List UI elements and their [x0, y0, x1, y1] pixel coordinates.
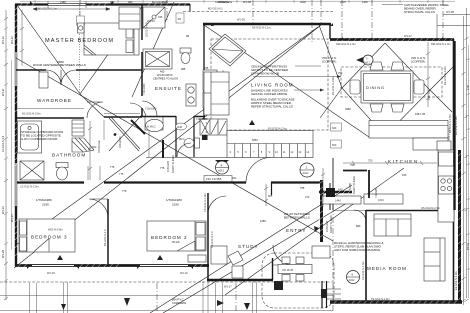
deck table	[278, 257, 312, 281]
kitchen upper cabinet	[437, 141, 451, 150]
bath toilet	[56, 163, 68, 181]
cabinet living above strip	[200, 119, 227, 135]
top wall tick arrows	[30, 1, 443, 40]
wall entry east	[329, 183, 331, 210]
ceiling line dining corner b	[430, 90, 452, 112]
wall hatch ticks right lower	[458, 154, 461, 301]
bathroom door nib diagonal	[131, 120, 145, 134]
svg-text:1140: 1140	[177, 125, 183, 129]
ensuite toilet	[180, 48, 191, 64]
door media	[354, 210, 366, 222]
svg-text:E1-GS1-N-1.3m: E1-GS1-N-1.3m	[454, 271, 458, 290]
svg-text:BY-04: BY-04	[466, 242, 470, 250]
bath dim lines	[88, 166, 100, 180]
svg-text:05-GS: 05-GS	[172, 240, 180, 244]
svg-text:13B.T.05: 13B.T.05	[427, 89, 431, 100]
wall kitchen/entry west	[332, 158, 334, 210]
dining chairs bottom	[370, 104, 404, 112]
drawers 3-DRW wardrobe	[39, 72, 48, 88]
svg-text:4060: 4060	[345, 107, 351, 111]
svg-text:5880: 5880	[252, 138, 258, 142]
grid line dashdot x253	[252, 0, 254, 24]
svg-text:W.C: W.C	[179, 137, 185, 141]
svg-text:F-IB: F-IB	[466, 85, 470, 90]
dining table	[361, 71, 413, 103]
wall exterior right	[453, 39, 455, 302]
wall wc right	[193, 116, 195, 157]
study west wall extension to deck	[203, 281, 208, 313]
north arrow deck left	[61, 304, 66, 310]
svg-text:1990: 1990	[362, 0, 368, 4]
svg-text:N2-GS2-N-2.0m: N2-GS2-N-2.0m	[268, 127, 287, 131]
svg-text:DAIRY SLIDER: DAIRY SLIDER	[352, 176, 356, 194]
grid line dashdot x443	[442, 0, 444, 39]
small dims scattered	[110, 34, 426, 244]
hall south line	[146, 157, 227, 159]
entry porch pier	[321, 289, 327, 298]
svg-text:E2-GS1-N-1.0m: E2-GS1-N-1.0m	[443, 66, 447, 85]
svg-text:ENTRY: ENTRY	[286, 228, 307, 233]
svg-text:760: 760	[338, 71, 343, 75]
svg-text:CEILING COFFER ABOVE: CEILING COFFER ABOVE	[251, 92, 287, 96]
svg-text:465: 465	[160, 70, 165, 74]
wall living room top W1-08	[203, 23, 331, 26]
svg-text:FFL: FFL	[232, 176, 237, 180]
svg-text:W1-11: W1-11	[1, 88, 5, 96]
svg-text:DOOR CENTERED BETWEEN WALLS: DOOR CENTERED BETWEEN WALLS	[33, 63, 86, 67]
wall exterior left window W1-12	[15, 52, 17, 86]
dining chair left	[350, 80, 360, 94]
svg-text:W1-1B: W1-1B	[1, 250, 5, 258]
leader line cantilever note	[382, 4, 403, 6]
svg-text:BETWEEN WALLS: BETWEEN WALLS	[284, 216, 310, 220]
svg-text:CENTRES TO ALIGN: CENTRES TO ALIGN	[153, 77, 178, 81]
note bed2 window dim	[166, 198, 182, 207]
bath skylight	[20, 161, 44, 180]
entry porch wall verticals	[322, 281, 327, 308]
marker 1/A012	[300, 163, 314, 177]
ceiling line to diamond from wall	[319, 25, 342, 88]
study desk	[211, 246, 227, 264]
svg-text:41-GS1-N-1.6: 41-GS1-N-1.6	[1, 135, 5, 152]
svg-text:715: 715	[204, 66, 209, 70]
svg-text:(COFFER): (COFFER)	[322, 60, 336, 64]
svg-text:STRUCTURAL CALCS: STRUCTURAL CALCS	[404, 10, 435, 14]
svg-text:OD 18.36: OD 18.36	[282, 268, 294, 272]
bath tub	[18, 121, 42, 153]
storage angled door hatched	[72, 138, 94, 152]
svg-text:150: 150	[402, 173, 407, 177]
wall hall east segment	[271, 182, 273, 195]
ensuite dim column	[221, 70, 225, 110]
svg-text:710x1080: 710x1080	[142, 83, 146, 95]
svg-text:775: 775	[122, 189, 127, 193]
arrow marker bed3	[57, 255, 63, 260]
svg-text:DAIRY SLIDER: DAIRY SLIDER	[329, 215, 333, 233]
svg-text:A012: A012	[303, 171, 310, 175]
ceiling coffer living dashed	[211, 39, 328, 130]
svg-text:H.W.C: H.W.C	[147, 125, 156, 129]
ceiling diamond dining	[342, 43, 430, 136]
kitchen bench 1010	[364, 194, 403, 204]
entry porch steps	[327, 289, 341, 299]
deck post pair mid right	[216, 283, 223, 313]
study cabinet	[232, 266, 243, 278]
svg-text:REFER STRUCTURAL CALCS: REFER STRUCTURAL CALCS	[251, 105, 293, 109]
ceiling line long NE parallel b	[16, 27, 318, 245]
ceiling line study long b	[163, 200, 352, 313]
wall hatch ticks bottom bedrooms	[18, 264, 203, 267]
kitchen fridge	[439, 152, 454, 166]
hall dim chain vertical	[88, 121, 92, 180]
svg-text:LIVING ROOM: LIVING ROOM	[251, 83, 294, 88]
svg-text:750: 750	[368, 159, 373, 163]
svg-text:G5-GS2-N-2.3m: G5-GS2-N-2.3m	[421, 206, 440, 210]
ceiling line wardrobe steep	[132, 2, 174, 97]
corridor second line right part	[104, 113, 140, 115]
media couch vertical	[424, 238, 445, 281]
arrow marker bed2	[157, 255, 163, 260]
svg-text:1250: 1250	[260, 219, 266, 223]
dim line left	[4, 10, 8, 300]
deck post pair far left	[30, 283, 37, 313]
entry wall horizontal hatch ticks	[322, 190, 351, 194]
svg-text:(COFFER): (COFFER)	[411, 60, 425, 64]
deck edge dashed	[0, 281, 333, 283]
svg-text:755: 755	[300, 186, 305, 190]
wall entry south pier	[274, 281, 283, 290]
svg-text:W1-16: W1-16	[180, 271, 188, 275]
top right corner lines	[437, 14, 470, 40]
wardrobe unit master	[119, 7, 140, 29]
wall exterior right thick lower	[458, 150, 461, 302]
media couch horizontal	[374, 214, 411, 236]
deck dashdot x157	[156, 283, 158, 313]
svg-text:W1-15: W1-15	[47, 271, 55, 275]
svg-text:1175: 1175	[162, 0, 168, 4]
entry arrow marker	[314, 226, 319, 232]
svg-text:W1-07: W1-07	[404, 34, 412, 38]
bedroom2 corner bench	[188, 255, 206, 262]
svg-text:600: 600	[332, 126, 337, 130]
ensuite cabinet	[203, 70, 217, 108]
note storage cupboard	[21, 130, 64, 141]
skylight living diamond	[209, 34, 246, 66]
wall study bottom W1-17	[207, 279, 273, 282]
svg-text:B04 P.V.C: B04 P.V.C	[172, 298, 184, 302]
note w1-09 centres align	[153, 70, 178, 81]
note textured walls	[284, 212, 311, 220]
svg-text:775: 775	[110, 165, 115, 169]
wall living left	[203, 24, 205, 138]
svg-text:STORAGE: STORAGE	[97, 140, 101, 153]
kitchen stove	[439, 176, 454, 194]
north arrow deck center	[217, 300, 224, 306]
entry pier square	[326, 188, 335, 197]
svg-text:W1-13: W1-13	[1, 206, 5, 214]
note dashed line indicates	[251, 89, 288, 97]
svg-text:FFL 19.355: FFL 19.355	[206, 177, 222, 181]
entry wall vertical hatch ticks	[319, 180, 324, 238]
left dim extra ticks	[4, 27, 8, 282]
grid line dashdot x312	[311, 0, 313, 42]
grid line dashdot x321	[320, 0, 322, 24]
marker 5/A012 teardrop	[356, 55, 373, 65]
svg-text:SD: SD	[178, 17, 182, 21]
dim text left rotated	[1, 36, 14, 258]
entry wall horizontal hatched	[319, 191, 352, 194]
svg-text:710x985: 710x985	[374, 187, 378, 198]
svg-text:1/760x1980: 1/760x1980	[36, 198, 52, 202]
door wc	[177, 143, 191, 157]
svg-text:775x985: 775x985	[348, 182, 352, 193]
wall ensuite left	[141, 4, 143, 117]
svg-text:COMPLETE: COMPLETE	[172, 301, 187, 305]
marker 4/A012	[215, 160, 229, 174]
svg-text:A012: A012	[364, 61, 371, 65]
door bathroom	[87, 102, 103, 118]
wall exterior top window	[48, 4, 86, 6]
landing dot	[114, 133, 117, 136]
kitchen island lower tier	[413, 138, 448, 150]
wc toilet	[184, 138, 200, 148]
bifold panel numbers 1-3	[206, 121, 208, 134]
left wall window lower	[15, 163, 17, 206]
door master double	[46, 70, 76, 85]
oval marker 1140	[176, 123, 187, 130]
svg-text:MASTER BEDROOM: MASTER BEDROOM	[45, 38, 114, 44]
svg-text:775: 775	[160, 166, 165, 170]
storage shelves bathroom	[72, 120, 84, 136]
island dim boxes 600	[331, 123, 342, 148]
grid line dashdot x167	[166, 0, 168, 22]
svg-text:W1-09 AFFIX: W1-09 AFFIX	[157, 73, 173, 77]
svg-text:KITCHEN: KITCHEN	[388, 159, 419, 164]
wall bedrooms bottom window gaps	[32, 265, 188, 267]
ceiling coffer dining dashed	[341, 67, 442, 97]
wall hatch ticks media bottom	[334, 301, 457, 304]
study chair	[228, 251, 243, 265]
svg-text:2/GS1-N-0.8: 2/GS1-N-0.8	[145, 22, 149, 37]
door ensuite	[142, 101, 157, 116]
deck rounded dashed outline study	[262, 253, 334, 308]
svg-text:C2-GS1-N-1.9m: C2-GS1-N-1.9m	[361, 261, 365, 280]
note door centered	[33, 60, 86, 67]
svg-text:150 C.O.S.: 150 C.O.S.	[447, 127, 451, 140]
door hall arc	[246, 158, 271, 183]
entry dim 685	[264, 184, 268, 206]
bed master	[84, 23, 139, 55]
svg-text:W1-13: W1-13	[10, 214, 14, 222]
svg-text:DINING: DINING	[366, 85, 385, 90]
ceiling line entry to bench	[225, 168, 404, 295]
svg-text:B2-GS1-N-1.0: B2-GS1-N-1.0	[103, 229, 107, 246]
sofa living	[204, 72, 229, 115]
svg-text:A007 FOR SUBFLOOR FRAMING: A007 FOR SUBFLOOR FRAMING	[334, 248, 381, 252]
stairs X landing	[109, 117, 140, 151]
svg-text:N1-GS1-N-3.0m: N1-GS1-N-3.0m	[22, 112, 41, 116]
svg-text:2380: 2380	[60, 0, 66, 4]
living dim line mid	[253, 75, 341, 78]
svg-text:335: 335	[158, 15, 163, 19]
svg-text:800: 800	[92, 145, 97, 149]
note ceiling coffer truss	[251, 65, 289, 76]
ridge tail into corridor	[80, 94, 104, 117]
master bedside table	[78, 23, 85, 33]
svg-text:W1-12: W1-12	[10, 36, 14, 44]
note cantilevered beams	[404, 3, 450, 14]
ceiling line study long a	[150, 185, 352, 313]
svg-text:NW-GS1-N-1.0m: NW-GS1-N-1.0m	[336, 42, 356, 46]
wall media room left	[365, 210, 367, 302]
svg-text:BATHROOM: BATHROOM	[52, 153, 86, 158]
dining chairs top	[370, 62, 404, 70]
note coffer left	[322, 56, 337, 64]
skylight wardrobe	[143, 49, 172, 69]
svg-text:W1-08: W1-08	[237, 18, 245, 22]
ceiling line long NE (bed3 to living)	[14, 25, 321, 268]
grid line dashdot x342	[341, 0, 343, 39]
door entry	[273, 245, 293, 265]
deck post pair right	[253, 282, 257, 313]
entry wall vertical hatched	[320, 180, 323, 242]
svg-text:600: 600	[332, 143, 337, 147]
leader dashed note	[294, 89, 324, 92]
svg-text:980: 980	[128, 0, 133, 4]
marker 6/A012	[347, 271, 360, 284]
wall hatch ticks W1-07	[336, 38, 453, 41]
kitchen dim horizontal	[343, 161, 437, 165]
svg-text:710x1080: 710x1080	[196, 117, 208, 121]
top dim line	[20, 0, 455, 3]
note coffer right	[411, 56, 426, 64]
ceiling line long SE (living to kitchen)	[204, 25, 369, 137]
svg-text:C5-GS1-N-1.0m: C5-GS1-N-1.0m	[203, 193, 207, 212]
svg-text:WARDROBE: WARDROBE	[37, 98, 72, 103]
ceiling line long SE (wardrobe corner to entry)	[16, 58, 333, 241]
wall hatch ticks top	[20, 3, 187, 6]
left wall second dim line	[11, 60, 13, 250]
junction block living/strip	[202, 135, 208, 140]
hwc cupboard	[145, 117, 163, 132]
svg-text:M2-GS1-N-1: M2-GS1-N-1	[208, 7, 223, 11]
ensuite vanity	[186, 84, 196, 106]
svg-text:C3-GS1-N-1.0: C3-GS1-N-1.0	[210, 231, 214, 248]
right dim line outer	[462, 16, 466, 305]
deck joist line 1	[0, 295, 333, 297]
svg-text:2190: 2190	[172, 203, 179, 207]
deck arrow mid	[124, 298, 130, 306]
wall exterior top	[15, 3, 190, 5]
wall step living/dining	[329, 24, 331, 39]
svg-text:W1-09: W1-09	[147, 19, 155, 23]
deck boundary dashdot vertical	[332, 162, 334, 313]
wall wc left	[175, 116, 177, 157]
wall bedroom2/hall divider	[207, 193, 209, 280]
svg-text:A012: A012	[218, 169, 225, 173]
ensuite shower	[143, 7, 165, 28]
svg-text:N3-GS1-N-1.1m: N3-GS1-N-1.1m	[252, 26, 271, 30]
wall hatch ticks left	[15, 8, 17, 257]
svg-text:C1-GS1-N-2.0m: C1-GS1-N-2.0m	[20, 185, 39, 189]
bed 2	[147, 221, 206, 251]
svg-text:W1-0B: W1-0B	[446, 10, 454, 14]
svg-text:P2-GS1-N-2.9m: P2-GS1-N-2.9m	[371, 297, 390, 301]
hall west line	[148, 131, 150, 157]
wall exterior left	[15, 4, 17, 266]
ceiling line diamond tail	[320, 88, 342, 118]
note ffl	[204, 176, 232, 182]
dim text right rotated	[454, 85, 470, 290]
wall study right	[272, 258, 274, 280]
dim line right	[465, 8, 469, 302]
dim box top middle	[176, 13, 184, 23]
wall master bedroom bottom	[16, 69, 142, 71]
svg-text:680: 680	[356, 224, 361, 228]
wall step top x190	[189, 4, 191, 12]
kitchen west wall dark	[368, 170, 370, 198]
svg-text:685: 685	[268, 194, 273, 198]
svg-text:W1-12: W1-12	[1, 36, 5, 44]
dining chair right	[414, 80, 424, 94]
wall media room bottom	[330, 300, 462, 303]
svg-text:3600: 3600	[300, 0, 306, 4]
kitchen bench 1440	[322, 196, 361, 204]
svg-text:W1-17: W1-17	[224, 285, 232, 289]
kitchen counter right	[438, 150, 454, 222]
svg-text:1440: 1440	[335, 199, 341, 203]
entry bench	[312, 246, 330, 258]
svg-text:2190: 2190	[42, 203, 49, 207]
wall bathroom bottom / bedrooms top	[16, 181, 321, 183]
right dim line extra	[467, 45, 470, 298]
svg-text:1/760x1980: 1/760x1980	[166, 198, 182, 202]
label B04 PVC	[172, 298, 187, 306]
svg-text:M2-GS1-N-1.1m: M2-GS1-N-1.1m	[38, 7, 57, 11]
ceiling line dining corner a	[430, 67, 453, 90]
svg-text:775: 775	[119, 172, 124, 176]
dining dim vertical	[426, 42, 430, 107]
note bulkhead over	[251, 98, 295, 109]
master window dim line	[33, 8, 110, 11]
top edge extra dims	[128, 0, 368, 4]
svg-text:485: 485	[181, 67, 186, 71]
svg-text:H.W.C CUPBOARD DOOR: H.W.C CUPBOARD DOOR	[21, 137, 58, 141]
svg-text:SW-GS1-N-1.0m: SW-GS1-N-1.0m	[431, 42, 451, 46]
svg-text:COMPLETE: COMPLETE	[218, 0, 233, 4]
hall wall stub dark	[162, 140, 164, 158]
corridor door arc ensuite hall	[130, 103, 146, 119]
hall niche lines	[103, 120, 105, 140]
note hardwood decking	[334, 241, 384, 252]
wall dining/kitchen top W1-07	[330, 38, 454, 41]
dim box grid x80	[77, 16, 85, 25]
ceiling ridge dotted master	[79, 4, 81, 94]
ceiling line master V left	[17, 5, 80, 94]
svg-text:150: 150	[305, 195, 310, 199]
svg-text:910x2100: 910x2100	[118, 136, 122, 148]
bottom wall tick arrows	[27, 266, 193, 269]
svg-text:198.7.05: 198.7.05	[415, 112, 426, 116]
svg-text:A012: A012	[349, 278, 356, 282]
leader coffer note	[295, 65, 321, 67]
svg-text:D1-GS1-N-0.9m: D1-GS1-N-0.9m	[331, 76, 335, 95]
master left window dim	[20, 10, 24, 66]
deck dashdot x236	[235, 283, 237, 313]
grid line dashdot x372	[371, 0, 373, 39]
svg-text:640: 640	[338, 188, 343, 192]
svg-text:W01-N-0.8m: W01-N-0.8m	[48, 228, 63, 232]
